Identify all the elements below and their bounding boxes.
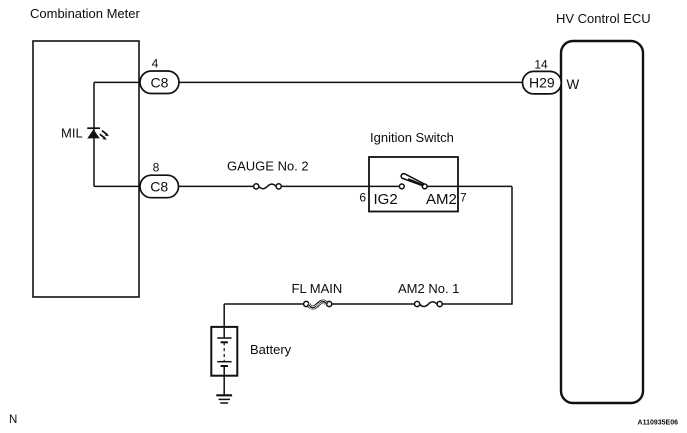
svg-text:6: 6 (359, 191, 366, 205)
svg-text:W: W (567, 77, 580, 92)
ignition switch box S1 (369, 157, 458, 212)
switch contact IG2 (399, 184, 404, 189)
wire C8 pin4 to H29 pin14 (94, 81, 523, 83)
svg-text:FL MAIN: FL MAIN (292, 281, 343, 296)
svg-text:8: 8 (153, 161, 160, 175)
fuse AM2 No. 1 (415, 301, 443, 306)
svg-text:GAUGE No. 2: GAUGE No. 2 (227, 159, 309, 174)
svg-text:14: 14 (534, 58, 548, 72)
wire battery top (223, 304, 225, 327)
LED MIL (87, 128, 109, 140)
svg-text:AM2: AM2 (426, 191, 457, 208)
switch contact AM2 (422, 184, 427, 189)
svg-text:N: N (9, 414, 17, 426)
svg-text:HV Control ECU: HV Control ECU (556, 11, 651, 26)
connector C8 pin 8 (140, 161, 179, 198)
wire battery to ground (223, 376, 225, 395)
fuse GAUGE No. 2 (254, 184, 282, 189)
connector C8 pin 4 (140, 57, 179, 94)
svg-text:AM2 No. 1: AM2 No. 1 (398, 281, 459, 296)
svg-text:IG2: IG2 (374, 191, 398, 208)
wire MIL loop vertical (93, 82, 95, 186)
svg-text:H29: H29 (529, 75, 555, 91)
svg-text:MIL: MIL (61, 126, 83, 141)
svg-text:Battery: Battery (250, 342, 292, 357)
svg-text:A110935E06: A110935E06 (638, 420, 679, 427)
svg-text:C8: C8 (150, 179, 168, 195)
switch lever (401, 174, 423, 186)
svg-text:Combination Meter: Combination Meter (30, 6, 140, 21)
fusible link FL MAIN (304, 301, 332, 309)
wire battery to switch horizontal (224, 303, 303, 305)
svg-text:C8: C8 (151, 74, 169, 90)
connector H29 pin 14 (523, 58, 562, 94)
svg-text:7: 7 (460, 191, 467, 205)
svg-text:Ignition Switch: Ignition Switch (370, 130, 454, 145)
svg-text:4: 4 (152, 57, 159, 71)
ground (216, 395, 232, 403)
HV Control ECU box U1 (561, 41, 643, 403)
wire C8 pin8 run (94, 185, 254, 187)
combination meter box (33, 41, 139, 297)
wire switch down to AM2 line (511, 186, 513, 304)
battery B1 (211, 327, 237, 376)
